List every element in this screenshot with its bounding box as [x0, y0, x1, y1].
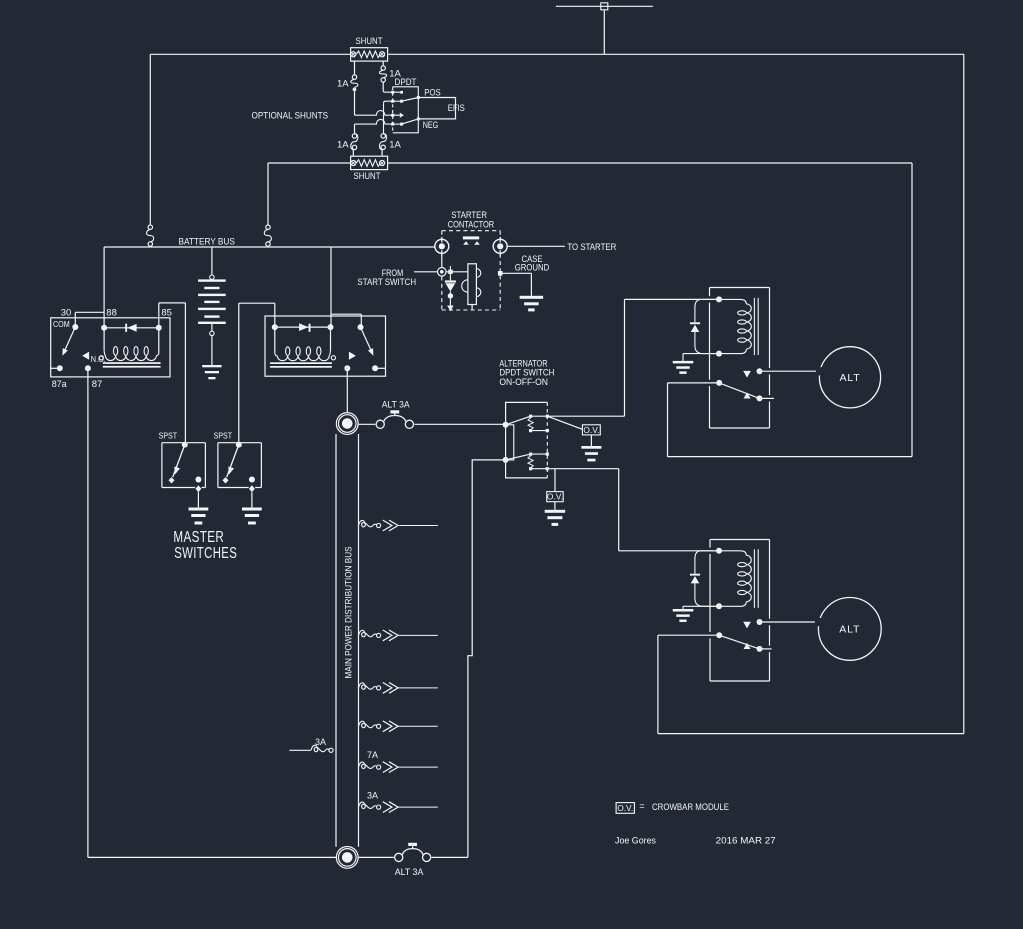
- svg-text:SWITCHES: SWITCHES: [174, 545, 237, 562]
- svg-text:O.V.: O.V.: [617, 803, 633, 813]
- svg-text:ALT 3A: ALT 3A: [382, 399, 410, 409]
- svg-text:BATTERY BUS: BATTERY BUS: [179, 237, 235, 247]
- svg-text:87: 87: [92, 379, 103, 390]
- svg-text:EFIS: EFIS: [448, 103, 465, 114]
- svg-text:MASTER: MASTER: [173, 529, 224, 546]
- svg-text:2016 MAR 27: 2016 MAR 27: [716, 835, 776, 845]
- svg-text:1A: 1A: [337, 139, 349, 150]
- svg-text:ALT 3A: ALT 3A: [395, 867, 424, 877]
- svg-text:=: =: [639, 801, 644, 811]
- svg-text:O.V.: O.V.: [583, 425, 599, 435]
- svg-text:3A: 3A: [315, 737, 326, 747]
- svg-text:SPST: SPST: [159, 432, 178, 441]
- svg-text:DPDT: DPDT: [395, 77, 417, 88]
- svg-text:N.O.: N.O.: [91, 354, 106, 364]
- svg-text:SHUNT: SHUNT: [356, 36, 383, 47]
- svg-text:1A: 1A: [389, 139, 401, 150]
- svg-text:O.V.: O.V.: [547, 492, 563, 502]
- svg-text:88: 88: [106, 307, 117, 318]
- svg-text:85: 85: [161, 307, 172, 318]
- svg-text:1A: 1A: [337, 78, 349, 89]
- svg-text:MAIN POWER DISTRIBUTION BUS: MAIN POWER DISTRIBUTION BUS: [343, 547, 353, 679]
- svg-text:ALT: ALT: [840, 372, 861, 384]
- svg-text:NEG: NEG: [423, 120, 439, 131]
- svg-text:OPTIONAL SHUNTS: OPTIONAL SHUNTS: [252, 110, 329, 120]
- svg-text:ON-OFF-ON: ON-OFF-ON: [499, 377, 548, 387]
- svg-text:Joe Gores: Joe Gores: [615, 835, 656, 845]
- svg-text:POS: POS: [424, 87, 440, 98]
- svg-text:87a: 87a: [52, 379, 68, 390]
- svg-text:7A: 7A: [367, 750, 378, 760]
- svg-text:3A: 3A: [367, 791, 378, 801]
- svg-text:ALT: ALT: [839, 624, 860, 636]
- svg-text:CONTACTOR: CONTACTOR: [448, 220, 495, 230]
- svg-text:COM: COM: [53, 319, 70, 329]
- svg-text:SPST: SPST: [214, 432, 233, 441]
- svg-text:CROWBAR MODULE: CROWBAR MODULE: [652, 802, 729, 812]
- svg-text:GROUND: GROUND: [515, 263, 550, 273]
- svg-text:TO STARTER: TO STARTER: [567, 242, 616, 253]
- svg-text:30: 30: [61, 307, 72, 318]
- svg-text:SHUNT: SHUNT: [354, 171, 381, 182]
- svg-text:START SWITCH: START SWITCH: [357, 277, 416, 287]
